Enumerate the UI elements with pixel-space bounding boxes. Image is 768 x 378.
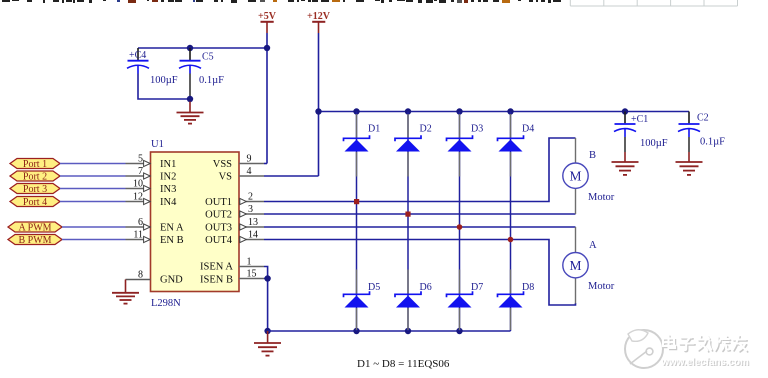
svg-text:+12V: +12V [307, 11, 331, 22]
node junction +12V rail [315, 108, 321, 114]
port A PWM [8, 222, 62, 234]
diode D1 [344, 124, 381, 152]
svg-text:EN B: EN B [160, 235, 184, 246]
node junction C1 top [622, 108, 628, 114]
svg-text:+C1: +C1 [631, 114, 648, 125]
svg-text:C5: C5 [202, 52, 214, 63]
capacitor C2 [678, 112, 725, 153]
svg-text:OUT4: OUT4 [205, 235, 233, 246]
svg-text:OUT1: OUT1 [205, 197, 232, 208]
wire Port2 to IN2 [60, 175, 126, 177]
svg-text:0.1µF: 0.1µF [700, 137, 725, 148]
port B PWM [8, 235, 62, 247]
svg-text:D1 ~ D8 = 11EQS06: D1 ~ D8 = 11EQS06 [357, 358, 450, 370]
power +5V symbol [258, 11, 277, 33]
node junction at +5V rail [264, 45, 270, 51]
pin 9 VSS [239, 154, 264, 165]
node red square OUT1/D1 [354, 199, 359, 204]
svg-text:D5: D5 [368, 282, 380, 293]
pin 1 ISEN A [239, 257, 264, 268]
wire D1 column vertical [356, 112, 358, 332]
diode D3 [447, 124, 484, 152]
ground at GND pin [112, 280, 139, 304]
svg-text:OUT3: OUT3 [205, 223, 232, 234]
svg-text:D3: D3 [471, 124, 483, 135]
pin 13 OUT3 [239, 217, 264, 230]
svg-text:Port 2: Port 2 [23, 172, 47, 183]
wire +12V rail to C2 [319, 111, 690, 113]
svg-text:10: 10 [133, 179, 143, 190]
wire +5V vertical to VSS pin [266, 33, 268, 164]
node red dot OUT4/D4 [508, 237, 514, 243]
svg-text:B PWM: B PWM [18, 235, 51, 246]
svg-text:11: 11 [133, 230, 143, 241]
wire VS to +12V [264, 175, 319, 177]
ground below C2 [676, 152, 703, 175]
wire ISEN B stub [264, 278, 268, 280]
node junction D5 bottom [353, 328, 359, 334]
port Port2 [10, 171, 60, 183]
node red square OUT2/D2 [405, 212, 410, 217]
svg-text:15: 15 [247, 269, 257, 280]
svg-text:D4: D4 [522, 124, 534, 135]
svg-text:L298N: L298N [151, 298, 181, 309]
wire bottom rail [268, 330, 511, 332]
svg-text:M: M [569, 258, 581, 273]
diode D6 [395, 282, 432, 308]
pin 5 IN1 [126, 154, 151, 167]
svg-text:B: B [589, 150, 596, 161]
svg-text:Port 4: Port 4 [23, 197, 47, 208]
svg-text:13: 13 [248, 217, 258, 228]
port Port3 [10, 184, 60, 196]
pin 11 EN B [126, 230, 151, 243]
watermark logo [625, 330, 663, 368]
wire OUT2 to motor B bottom [264, 213, 576, 215]
svg-text:ISEN A: ISEN A [200, 262, 233, 273]
svg-text:VS: VS [219, 172, 233, 183]
wire VSS to +5V [264, 163, 267, 165]
wire Port1 to IN1 [60, 163, 126, 165]
svg-text:Port 3: Port 3 [23, 184, 47, 195]
pin 4 VS [239, 166, 264, 177]
node junction D6 bottom [405, 328, 411, 334]
svg-text:U1: U1 [151, 139, 164, 150]
svg-text:2: 2 [248, 192, 253, 203]
clipped caption text row (top) [2, 0, 561, 3]
wire ISEN A/B to ground rail [264, 267, 268, 332]
wire OUT1 to motor B top [264, 138, 576, 202]
svg-text:4: 4 [247, 166, 252, 177]
capacitor C4 [127, 48, 178, 86]
power +12V symbol [307, 11, 331, 33]
pin 14 OUT4 [239, 230, 264, 243]
wire A PWM to EN A [62, 226, 126, 228]
node junction D2 top [405, 108, 411, 114]
svg-text:IN4: IN4 [160, 197, 177, 208]
pin 3 OUT2 [239, 204, 264, 217]
diode D7 [447, 282, 484, 308]
svg-text:6: 6 [138, 217, 143, 228]
motor A pins [575, 227, 577, 304]
svg-text:8: 8 [138, 270, 143, 281]
chip right pin names [200, 159, 233, 286]
wire OUT3 to motor A top [264, 226, 576, 228]
svg-text:A PWM: A PWM [18, 223, 51, 234]
node junction D4 top [507, 108, 513, 114]
svg-text:D6: D6 [420, 282, 432, 293]
svg-text:IN2: IN2 [160, 172, 176, 183]
svg-text:ISEN B: ISEN B [200, 275, 233, 286]
pin 7 IN2 [126, 166, 151, 179]
wire D4 column vertical [510, 112, 512, 332]
svg-text:OUT2: OUT2 [205, 210, 232, 221]
capacitor C1 [614, 112, 668, 153]
node junction D7 bottom [456, 328, 462, 334]
wire C4 bottom [138, 74, 190, 100]
pin 2 OUT1 [239, 192, 264, 205]
svg-text:12: 12 [133, 192, 143, 203]
svg-text:5: 5 [138, 154, 143, 165]
pin 6 EN A [126, 217, 151, 230]
svg-text:14: 14 [248, 230, 258, 241]
wire D3 column vertical [459, 112, 461, 332]
svg-text:GND: GND [160, 275, 183, 286]
node junction C4/C5 bottom [187, 96, 193, 102]
svg-text:+5V: +5V [258, 11, 277, 22]
svg-text:www.elecfans.com: www.elecfans.com [661, 357, 750, 368]
wire D2 column vertical [407, 112, 409, 332]
pin 8 GND [126, 270, 151, 281]
node junction D3 top [456, 108, 462, 114]
motor B pins [575, 138, 577, 214]
table fragment (top right) [570, 0, 737, 6]
watermark text 电子发烧友 [664, 336, 747, 352]
svg-text:100µF: 100µF [150, 75, 178, 86]
svg-text:EN A: EN A [160, 223, 184, 234]
node junction D1 top [353, 108, 359, 114]
node junction at C5 top [187, 45, 193, 51]
svg-text:D2: D2 [420, 124, 432, 135]
svg-text:Motor: Motor [588, 192, 615, 203]
svg-text:D1: D1 [368, 124, 380, 135]
svg-text:IN1: IN1 [160, 159, 176, 170]
diode D5 [344, 282, 381, 308]
op-amp U1 chip body L298N [151, 139, 240, 309]
svg-text:IN3: IN3 [160, 184, 176, 195]
pin 12 IN4 [126, 192, 151, 205]
capacitor C5 [179, 48, 224, 99]
pin segments (gray) of diode columns [357, 114, 511, 330]
ground below C4/C5 [177, 102, 204, 124]
node junction bottom rail left [264, 328, 270, 334]
diode D8 [498, 282, 535, 308]
svg-text:9: 9 [247, 154, 252, 165]
motor A [563, 240, 615, 292]
wire Port4 to IN4 [60, 201, 126, 203]
pin 15 ISEN B [239, 269, 264, 280]
svg-text:3: 3 [248, 204, 253, 215]
svg-text:C2: C2 [697, 113, 709, 124]
ground below C1 [612, 152, 639, 175]
svg-text:M: M [569, 169, 581, 184]
diode D2 [395, 124, 432, 152]
svg-text:0.1µF: 0.1µF [199, 75, 224, 86]
svg-text:Port 1: Port 1 [23, 159, 47, 170]
chip left pin names [160, 159, 184, 286]
svg-text:100µF: 100µF [640, 138, 668, 149]
wire top rail C4/C5 to +5V [138, 47, 267, 49]
node junction ISEN B [264, 275, 270, 281]
svg-text:1: 1 [247, 257, 252, 268]
wire +12V vertical to VS pin [318, 33, 320, 176]
diode D4 [498, 124, 535, 152]
wire OUT4 to motor A bottom [264, 240, 576, 306]
motor B [563, 150, 615, 203]
pin 10 IN3 [126, 179, 151, 192]
svg-text:A: A [589, 240, 597, 251]
port Port1 [10, 159, 60, 171]
svg-text:+C4: +C4 [129, 50, 146, 61]
ground below bottom rail [254, 331, 281, 356]
svg-text:D8: D8 [522, 282, 534, 293]
node red dot OUT3/D3 [457, 224, 463, 230]
svg-text:D7: D7 [471, 282, 483, 293]
wire Port3 to IN3 [60, 188, 126, 190]
svg-text:VSS: VSS [213, 159, 232, 170]
svg-text:7: 7 [138, 166, 143, 177]
wire B PWM to EN B [62, 239, 126, 241]
port Port4 [10, 197, 60, 209]
svg-text:Motor: Motor [588, 281, 615, 292]
